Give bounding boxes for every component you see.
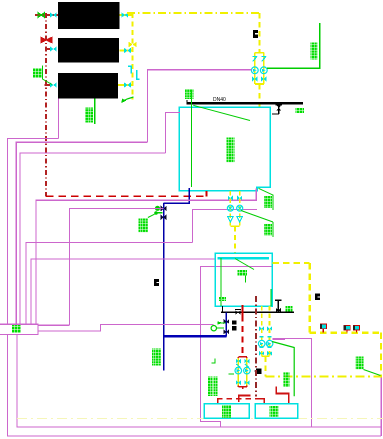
- magenta line y209.5 right: [192, 210, 257, 243]
- green drop line under B3: [94, 99, 96, 124]
- valves group 2: [228, 196, 233, 201]
- navy valve on drop: [224, 319, 229, 324]
- magenta link y330.8 with jog: [38, 324, 214, 330]
- green vertical label under B3: [85, 108, 93, 123]
- yellow return riser x=132.6: [132, 13, 134, 100]
- yellow pump group 3 below collector: [261, 306, 263, 356]
- black instrument at pumps: [256, 369, 261, 374]
- green label below vent: [139, 219, 149, 233]
- navy thick header: [164, 335, 227, 338]
- green tag at pipe end: [286, 306, 293, 312]
- cyan valve on B2 right stub: [124, 48, 131, 53]
- check valves pump group 1: [253, 57, 266, 62]
- green label left of riser: [33, 68, 42, 78]
- gauge 1 on yellow line: [320, 324, 327, 333]
- yellow header (dash-dot) to pump group: [127, 12, 261, 14]
- yellow main drop x=259.4: [258, 13, 260, 53]
- gauge 3: [353, 325, 360, 332]
- red drop from collector: [242, 305, 244, 316]
- navy drop from black pipe: [225, 312, 227, 336]
- red valve cross on riser: [41, 37, 52, 42]
- red riser into exchanger: [206, 191, 208, 197]
- green labels right of pump group 2: [264, 196, 272, 209]
- collector box (cyan): [215, 253, 272, 306]
- green gauge circle: [211, 326, 216, 331]
- magenta branch into exchanger left: [166, 113, 180, 153]
- black small tag near drop: [232, 321, 236, 325]
- cyan valve on B2 left stub: [50, 46, 57, 51]
- yellow horizontal y332.7: [310, 332, 381, 334]
- svg-text:DN40: DN40: [213, 97, 226, 103]
- magenta drop right of box2: [200, 267, 272, 427]
- green tag in collector: [238, 270, 248, 276]
- magenta right edge riser: [380, 377, 382, 436]
- pump P1a: [251, 67, 258, 74]
- water tank 1 (cyan): [204, 404, 249, 419]
- magenta stub to group 3: [273, 339, 286, 341]
- black pipe DN40 top: [186, 102, 302, 104]
- pumps group 3: [258, 340, 265, 347]
- dark red reclaimed water line: [255, 296, 257, 397]
- check valves red branch: [236, 364, 249, 368]
- green feed line inside exchanger: [191, 90, 193, 187]
- black instrument tag on yellow main: [253, 30, 258, 38]
- magenta riser 5 (y258.9): [31, 259, 215, 324]
- collector header bar: [218, 257, 270, 260]
- green line inside collector right: [270, 289, 272, 306]
- magenta bottom rail 2: [7, 335, 381, 436]
- green flag at navy drop: [218, 321, 224, 324]
- plate heat exchanger box (cyan): [179, 107, 270, 191]
- tank 2 label: [270, 406, 279, 418]
- green exchanger name text: [227, 138, 235, 163]
- magenta link box to riser y325: [38, 324, 70, 326]
- navy riser long: [163, 203, 165, 370]
- black tag near yellow corner: [315, 294, 320, 301]
- green leader line to B3 stub: [43, 66, 53, 85]
- red dashed supply to exchanger: [46, 195, 207, 197]
- cyan flexible connector on riser: [128, 66, 139, 79]
- group 2 merge: [230, 225, 239, 227]
- strainers group 2: [228, 217, 234, 223]
- yellow right edge drop: [380, 333, 382, 377]
- valves below pumps group 1: [252, 77, 257, 82]
- green label columns bottom left: [208, 377, 212, 397]
- cyan valve on B3 left stub: [50, 82, 57, 87]
- navy valve 1: [161, 206, 167, 212]
- magenta riser 2: [16, 142, 147, 324]
- valves group 3 top: [259, 326, 264, 331]
- green leader from exchanger corner: [259, 188, 274, 195]
- valves group 3 bottom: [259, 351, 264, 356]
- red stub to B3: [45, 84, 52, 86]
- yellow valve on riser: [129, 42, 137, 48]
- magenta bottom rail 1: [17, 335, 381, 427]
- pumps red branch: [235, 367, 242, 374]
- pump P1b: [260, 67, 267, 74]
- pump group 2 above collector: [229, 191, 231, 226]
- water tank 2 (cyan): [255, 404, 298, 419]
- boiler B1: [58, 2, 120, 29]
- red main riser (dash-dot) x=46: [45, 13, 47, 196]
- pump group 1 branch frame: [255, 53, 264, 84]
- valves red pump branch top: [236, 359, 241, 364]
- pipe start tick: [186, 100, 188, 103]
- green pipe from pump group 1 to riser: [267, 23, 320, 68]
- black vertical tag text left of collector: [154, 279, 159, 286]
- cyan valve on B3 right stub: [124, 82, 131, 87]
- red stub to B2: [46, 48, 51, 50]
- magenta riser 6 (y200): [36, 189, 256, 325]
- cyan valve on B1 left stub: [50, 12, 57, 17]
- navy valve 2 on drop: [224, 329, 229, 334]
- magenta line y208: [70, 208, 164, 325]
- yellow drop to plate exchanger: [258, 84, 260, 107]
- cyan valve on B1 right stub: [122, 12, 129, 17]
- valves red pump branch bottom: [236, 380, 241, 385]
- yellow stub from B3: [118, 84, 133, 86]
- black pipe below collector: [221, 311, 294, 313]
- magenta right riser: [273, 339, 312, 428]
- green elbow left of pumps: [211, 358, 215, 363]
- green label at feed line top: [185, 89, 194, 99]
- magenta riser 4 (y242.6): [26, 243, 192, 325]
- yellow bottom return (dash-dot): [266, 376, 382, 378]
- green tag far right: [356, 357, 365, 370]
- yellow stub from B2: [120, 50, 133, 52]
- green line inside collector left: [220, 258, 222, 306]
- yellow pipe from collector to right: [272, 262, 309, 264]
- magenta elbow y138: [7, 138, 58, 324]
- boiler B3: [58, 73, 118, 99]
- navy valve 2: [161, 214, 167, 220]
- tank 1 label: [222, 405, 231, 418]
- green label at navy riser bottom: [152, 349, 161, 366]
- red bottom distribution: [217, 398, 258, 400]
- green leader 2: [241, 211, 273, 223]
- flow meters group 2: [227, 205, 233, 211]
- green valve tag right: [283, 372, 290, 387]
- red supply header stub to B1: [35, 14, 58, 16]
- green drain arrow at riser bottom: [123, 97, 134, 102]
- green stub left of pumps: [228, 373, 234, 375]
- green branch right of group 3: [272, 342, 294, 397]
- group 3 merge: [262, 355, 270, 357]
- black gate valve with stem: [277, 300, 279, 312]
- magenta drop from B3 zone: [57, 99, 59, 139]
- yellow right drop: [308, 263, 311, 333]
- magenta pipe to pump group 1: [148, 70, 252, 143]
- boiler B2: [58, 38, 119, 63]
- black drop valve to exchanger: [272, 103, 279, 114]
- green riser label: [311, 43, 318, 60]
- red pump branch frame: [238, 357, 247, 387]
- pale yellow bottom line: [17, 418, 383, 420]
- black valve on pipe: [235, 310, 240, 315]
- green leader diagonal: [193, 105, 250, 120]
- magenta riser 3: [20, 153, 166, 324]
- green leader in collector: [235, 259, 254, 270]
- yellow return stub from B1: [120, 14, 133, 16]
- green symbol in manifold box: [12, 325, 21, 333]
- green auto air vent at navy riser: [155, 206, 160, 211]
- navy pipe from exchanger: [164, 188, 190, 203]
- gauge 2: [344, 325, 351, 332]
- connection collector to black pipe: [222, 306, 224, 312]
- green valve on B1 stub: [38, 13, 45, 18]
- green tag right of drop valve: [296, 108, 305, 113]
- magenta manifold box bottom-left: [0, 324, 38, 334]
- green flag in collector: [219, 297, 226, 302]
- connector ticks group 3: [260, 337, 272, 348]
